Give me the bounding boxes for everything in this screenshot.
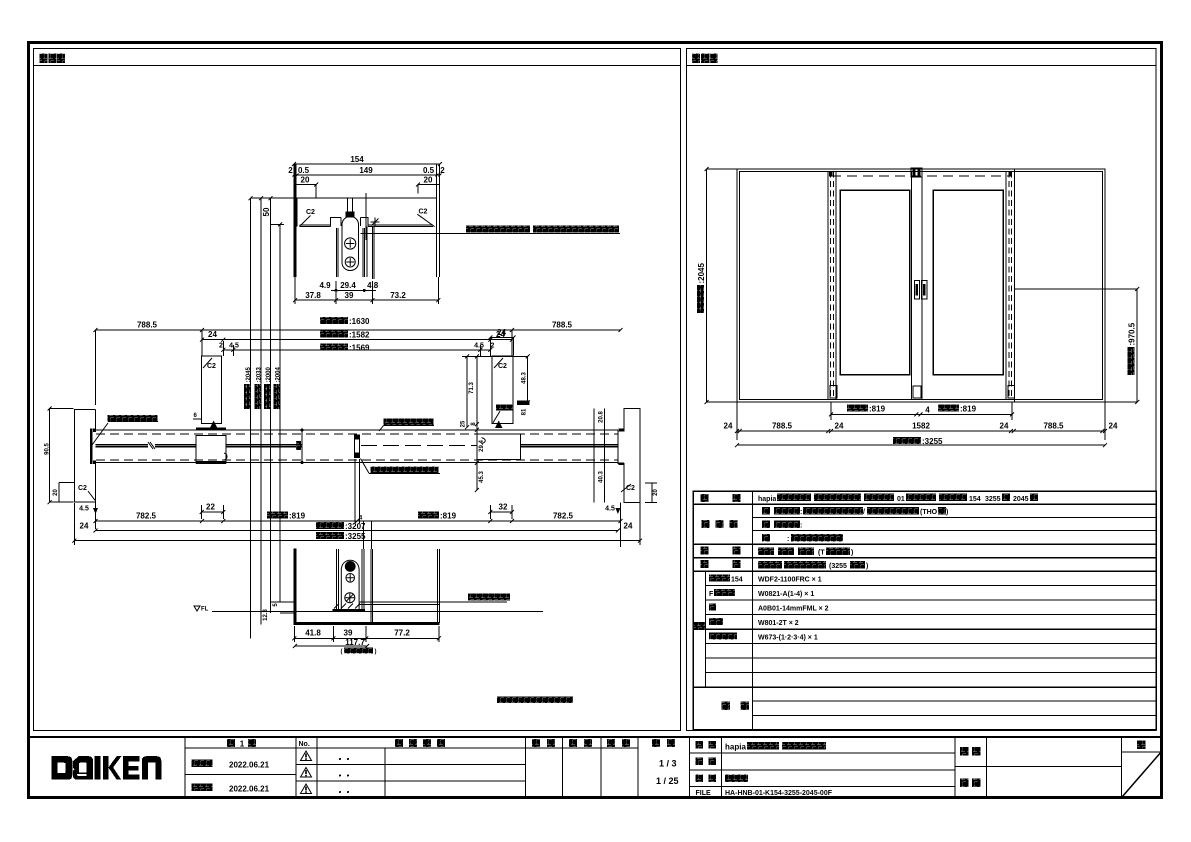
floor slab thick (294, 622, 440, 625)
svg-text:4: 4 (925, 405, 930, 414)
box 3 (receiving stile section) (477, 434, 521, 460)
guide arch (341, 560, 359, 610)
svg-text:32: 32 (499, 503, 508, 512)
right panel title underline (687, 65, 1157, 67)
svg-text:45.3: 45.3 (479, 471, 485, 483)
svg-text:20: 20 (53, 489, 59, 496)
svg-text:24: 24 (80, 522, 89, 531)
svg-text:39: 39 (345, 291, 354, 300)
label 有効:2004 rotated (274, 366, 282, 409)
svg-text:782.5: 782.5 (553, 512, 574, 521)
dim 24 post width (490, 337, 513, 339)
outer frame double rect (737, 169, 1105, 402)
svg-text:A0B01-14mmFML × 2: A0B01-14mmFML × 2 (758, 606, 829, 613)
label MAX:2045 rotated (244, 366, 252, 409)
svg-text:FL: FL (201, 607, 209, 613)
svg-text:2022.06.21: 2022.06.21 (229, 761, 270, 770)
mid thick line C (521, 445, 618, 447)
svg-text:154: 154 (350, 155, 364, 164)
dim 50 rotated (262, 207, 271, 216)
mid thick line B (226, 445, 302, 447)
svg-text:): ) (851, 550, 853, 557)
dim 22 left (202, 505, 224, 519)
dim 2/0.5/149/0.5/2 line (294, 174, 440, 176)
件名 block (955, 737, 986, 798)
svg-text:20: 20 (424, 176, 433, 185)
svg-text::819: :819 (440, 512, 457, 521)
center line mark (365, 193, 367, 240)
svg-text:4.5: 4.5 (474, 342, 484, 349)
door area right edge (1006, 169, 1014, 402)
left height dim 2045 (706, 169, 708, 402)
svg-text:WDF2-1100FRC × 1: WDF2-1100FRC × 1 (758, 577, 822, 584)
svg-text::3255: :3255 (922, 437, 943, 446)
svg-text::: : (800, 523, 802, 530)
svg-text:24: 24 (835, 422, 844, 431)
dim 4.9/29.4/4.8 line (331, 289, 376, 291)
dim 20 cap (645, 483, 657, 502)
svg-text:C2: C2 (626, 485, 635, 492)
hanger channel (331, 218, 369, 227)
mid thick line A (96, 445, 197, 447)
center meeting stiles (912, 172, 922, 400)
svg-text:2: 2 (491, 342, 495, 349)
svg-text:29.4: 29.4 (340, 281, 356, 290)
svg-text:1582: 1582 (912, 422, 930, 431)
svg-text:No.: No. (299, 741, 310, 748)
svg-text:C2: C2 (78, 485, 87, 492)
svg-text::1582: :1582 (349, 331, 370, 340)
svg-text:12.3: 12.3 (263, 609, 269, 621)
頁 cell (1121, 737, 1123, 798)
note: figure shows 3255 width case (497, 697, 573, 704)
label フラットレール (468, 594, 510, 601)
第1版 cell (185, 737, 296, 798)
right panel box (front view) (687, 49, 1157, 731)
名称 block (689, 753, 955, 787)
roller circle 1 (345, 238, 356, 249)
leader: hanging-side position (379, 426, 383, 432)
svg-text:788.5: 788.5 (772, 422, 793, 431)
left panel title underline (34, 65, 681, 67)
svg-text:149: 149 (359, 166, 373, 175)
leader line hanging rail (361, 233, 621, 235)
wall thick line left (294, 164, 297, 278)
svg-text:1: 1 (240, 740, 245, 749)
rail profile: bottom flange with center channel (296, 198, 298, 226)
dim line 782.5/819/819/782.5 (96, 520, 621, 522)
svg-text:4.5: 4.5 (229, 342, 239, 349)
dim line 24/788.5/24/1582/24/788.5/24 (737, 430, 1105, 432)
svg-text:24: 24 (624, 522, 633, 531)
svg-text:): ) (946, 509, 948, 516)
band bottom dash row (96, 459, 618, 461)
svg-text:73.2: 73.2 (390, 291, 406, 300)
svg-text:788.5: 788.5 (137, 321, 158, 330)
svg-text:788.5: 788.5 (552, 321, 573, 330)
svg-text::819: :819 (960, 404, 977, 413)
left thick wall line (294, 549, 297, 625)
svg-text::819: :819 (289, 512, 306, 521)
guide circles (345, 561, 356, 572)
改訂履歴 (525, 737, 527, 798)
svg-text:0.5: 0.5 (423, 166, 435, 175)
handle right (922, 280, 927, 299)
cross mark (371, 218, 380, 227)
dim line doors 819/4/819 (831, 413, 1012, 415)
svg-text:40.3: 40.3 (599, 471, 605, 483)
svg-text::2045: :2045 (697, 262, 706, 283)
svg-text:1 / 3: 1 / 3 (659, 759, 677, 769)
縮尺 column (688, 737, 690, 798)
svg-text:(T: (T (818, 550, 825, 557)
svg-text:2: 2 (219, 342, 223, 349)
floor line thin (212, 610, 543, 612)
label 枠外:2033 rotated (255, 366, 263, 409)
C2 chamfer right (417, 214, 434, 226)
dim line 3255 (737, 444, 1105, 446)
right door panel recess (933, 190, 1003, 374)
dim 32 right (490, 505, 512, 519)
dash-dot center between leaves (361, 445, 477, 447)
svg-text:2: 2 (288, 166, 293, 175)
svg-text:81: 81 (522, 408, 528, 415)
svg-text:37.8: 37.8 (305, 291, 321, 300)
svg-text:154: 154 (731, 577, 743, 584)
svg-text:39: 39 (344, 629, 353, 638)
dim 20 right (418, 185, 440, 194)
svg-text:24: 24 (497, 328, 506, 337)
dim 154 line (294, 163, 440, 165)
svg-text:154: 154 (969, 496, 981, 503)
box 2 rails with node dots (301, 430, 303, 462)
svg-text:4.9: 4.9 (319, 281, 331, 290)
svg-text::1569: :1569 (349, 344, 370, 353)
dim 20 left (296, 185, 317, 198)
svg-text:71.3: 71.3 (469, 382, 475, 394)
svg-text:22: 22 (206, 503, 215, 512)
svg-text:29.4: 29.4 (479, 440, 485, 452)
top ticks (249, 196, 283, 226)
svg-text::: : (800, 509, 802, 516)
dim 20 cap bottom (59, 483, 74, 502)
title 断面図 (40, 54, 48, 64)
svg-text:48.3: 48.3 (522, 372, 528, 384)
svg-text:W0821-A(1-4) × 1: W0821-A(1-4) × 1 (758, 591, 814, 598)
svg-text:01: 01 (897, 496, 905, 503)
dim line 3255 (74, 540, 640, 542)
svg-text:F: F (709, 591, 714, 598)
label 吊車レール：別途手配品 (466, 226, 530, 233)
DAIKEN logo (52, 756, 162, 780)
svg-text:C2: C2 (207, 363, 216, 370)
svg-text::2004: :2004 (276, 366, 282, 382)
left door panel recess (840, 190, 910, 374)
svg-text:2: 2 (440, 166, 445, 175)
svg-text::970.5: :970.5 (1128, 322, 1137, 345)
rail top lines extending right (359, 602, 507, 605)
dim line 3207 (96, 530, 618, 532)
black stop triangle (210, 421, 218, 429)
leader PP cap (92, 423, 108, 445)
svg-text:117.7: 117.7 (345, 638, 365, 647)
svg-text:hapia: hapia (725, 743, 746, 752)
svg-text:25: 25 (461, 420, 467, 427)
svg-text:1 / 25: 1 / 25 (656, 776, 679, 786)
svg-text:/: / (863, 509, 865, 516)
hanger side plates (337, 228, 365, 277)
svg-text::2045: :2045 (246, 366, 252, 382)
bottom guides (830, 385, 837, 397)
horizontal row lines (693, 503, 1156, 505)
band bottom line (93, 462, 618, 464)
svg-text:HA-HNB-01-K154-3255-2045-00F: HA-HNB-01-K154-3255-2045-00F (725, 790, 833, 797)
right post vertical dims (466, 356, 468, 427)
right cap vertical dims (594, 409, 605, 503)
guide verticals (336, 549, 364, 610)
bottom dim line 41.8/39/77.2 (294, 637, 439, 639)
svg-text:3255: 3255 (985, 496, 1001, 503)
svg-text:20.8: 20.8 (599, 411, 605, 423)
svg-text:C2: C2 (306, 209, 315, 216)
No. column (316, 737, 318, 798)
door area left edge (828, 172, 836, 400)
top rail dashed line (831, 175, 1011, 177)
dim 90.5 cap height (49, 409, 51, 503)
svg-text:(THO: (THO (920, 509, 938, 516)
rail right end double line (436, 164, 439, 277)
flat rail base (dark) (333, 609, 366, 612)
svg-text:): ) (866, 563, 868, 570)
left panel box (cross-section view) (34, 49, 681, 731)
svg-text:C2: C2 (419, 209, 428, 216)
svg-text:24: 24 (1000, 422, 1009, 431)
svg-text:hapia: hapia (758, 496, 776, 503)
hanger capsule (342, 217, 359, 271)
svg-text:77.2: 77.2 (394, 629, 410, 638)
small kanji mark in band (296, 441, 301, 450)
svg-text::819: :819 (869, 404, 886, 413)
meeting stile (355, 434, 360, 439)
band top dash row (96, 433, 618, 435)
svg-text:W673-(1·2·3·4) × 1: W673-(1·2·3·4) × 1 (758, 635, 818, 642)
モヘア label (496, 405, 513, 411)
leader: connecting part (361, 459, 370, 474)
svg-text:24: 24 (724, 422, 733, 431)
svg-text::2033: :2033 (257, 366, 263, 382)
hanger bolt (345, 211, 354, 217)
svg-text:24: 24 (1109, 422, 1118, 431)
svg-text:FILE: FILE (696, 790, 711, 797)
svg-text:4.5: 4.5 (605, 506, 615, 513)
row labels (701, 494, 709, 502)
svg-text:): ) (375, 649, 377, 655)
dim line 788.5/1630/788.5 (96, 329, 621, 331)
white box 1 (lock stile section) (196, 435, 226, 463)
band top line (93, 429, 618, 431)
right height dim 970.5 (1136, 289, 1138, 402)
handle left (914, 280, 919, 299)
bottom small dims (263, 609, 269, 621)
svg-text:W801-2T × 2: W801-2T × 2 (758, 620, 799, 627)
svg-text:C2: C2 (498, 363, 507, 370)
svg-text:788.5: 788.5 (1043, 422, 1064, 431)
connecting verticals from band (364, 521, 372, 549)
svg-text:0.5: 0.5 (298, 166, 310, 175)
top center hanger (911, 168, 922, 177)
svg-text::3207: :3207 (345, 522, 366, 531)
svg-text:24: 24 (208, 330, 217, 339)
roller circle 2 (345, 257, 355, 267)
svg-text::2000: :2000 (266, 366, 272, 382)
title block outer (29, 737, 1162, 798)
svg-text::: : (787, 536, 789, 543)
dim 37.8/39/73.2 line (295, 299, 438, 301)
svg-text:20: 20 (653, 489, 659, 496)
rail top line (251, 197, 437, 199)
svg-text:50: 50 (262, 207, 271, 216)
svg-text:20: 20 (301, 176, 310, 185)
svg-text:782.5: 782.5 (136, 512, 157, 521)
svg-text::3255: :3255 (345, 532, 366, 541)
svg-text:4.5: 4.5 (79, 506, 89, 513)
svg-text:(3255: (3255 (829, 563, 847, 570)
svg-text:2045: 2045 (1013, 496, 1029, 503)
label 内法:2000 rotated (264, 366, 272, 409)
dim line 2/4.5/1569/4.5/2 (223, 349, 490, 351)
承認/確認/作成 columns (562, 737, 637, 798)
svg-text::1630: :1630 (349, 317, 370, 326)
vertical lines (752, 491, 754, 730)
svg-text:90.5: 90.5 (45, 443, 51, 455)
C2 chamfer left (300, 216, 311, 227)
dim line 24/1582/24 (202, 339, 512, 341)
svg-text:2022.06.21: 2022.06.21 (229, 785, 270, 794)
title 正面図 (692, 54, 700, 64)
svg-text:(: ( (341, 649, 343, 655)
svg-text:41.8: 41.8 (305, 629, 321, 638)
品番 sub labels (709, 575, 730, 582)
